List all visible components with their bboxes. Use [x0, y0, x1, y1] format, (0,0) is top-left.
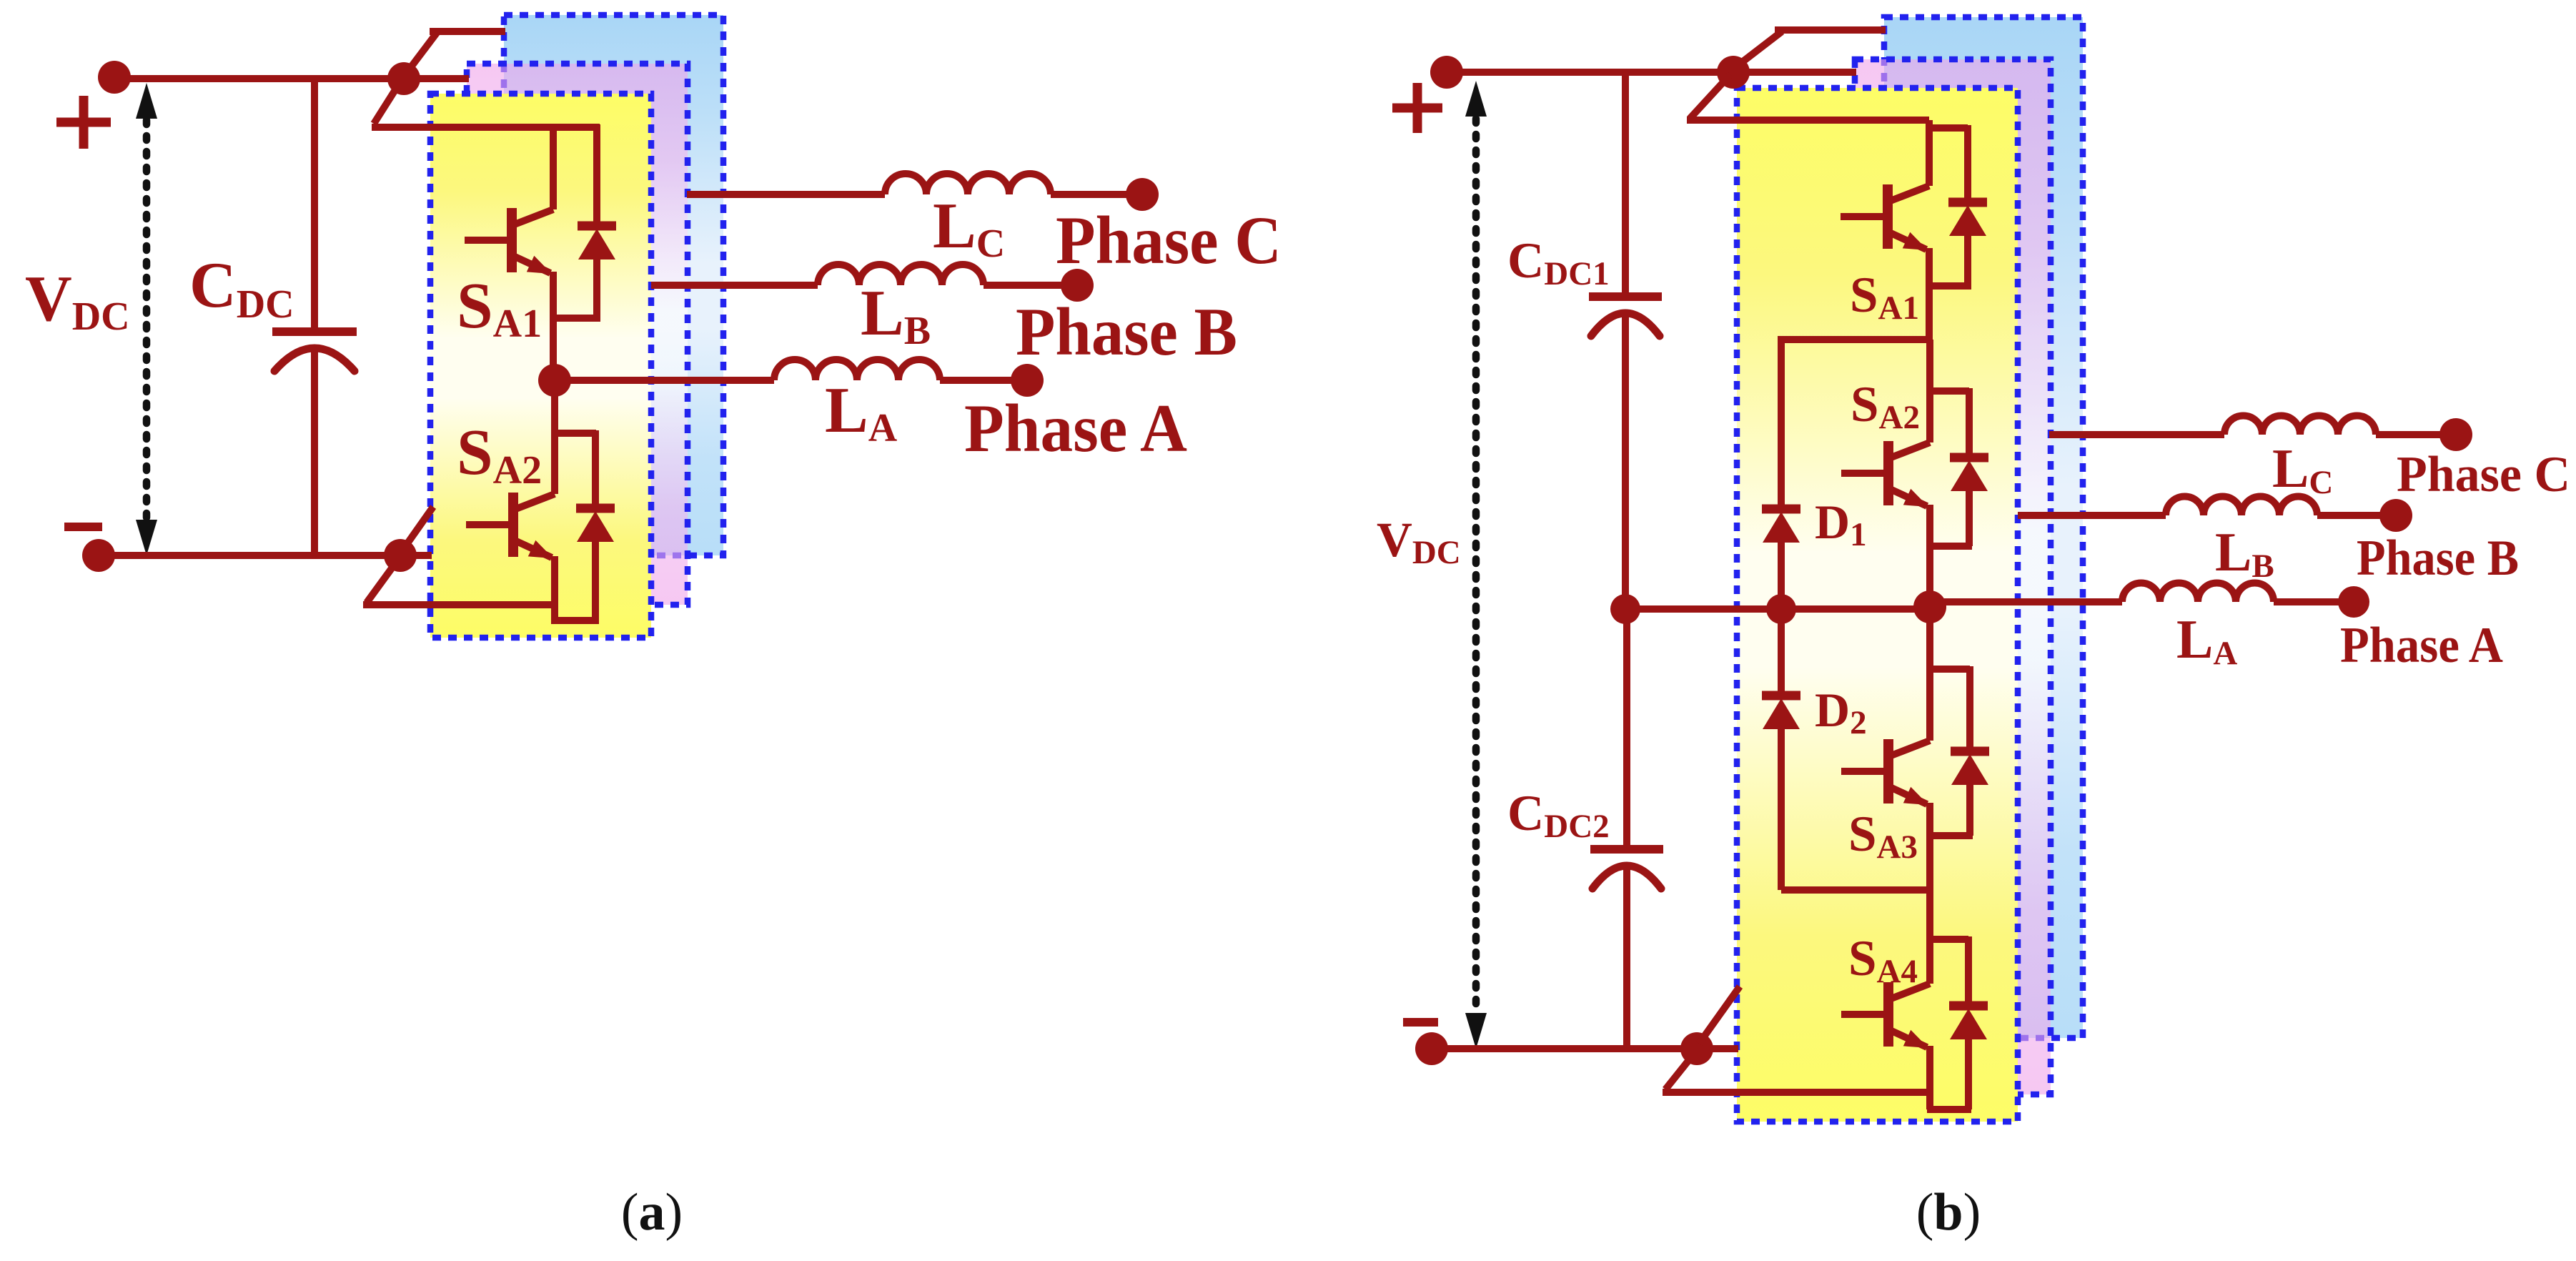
node phase A midpoint (a)	[538, 364, 571, 397]
label Phase B (b)	[2357, 530, 2519, 586]
wire bottom slant to leg C (b)	[1699, 986, 1740, 1044]
wire stub S_A3 collector-diode (b)	[1930, 666, 1970, 673]
wire phase A output (b)	[1930, 598, 2122, 605]
wire top rail leg C (b)	[1775, 26, 1886, 34]
transistor S_A1 (b)	[1841, 184, 1929, 250]
wire mid rail to output node (b)	[1781, 605, 1930, 613]
node capacitor midpoint (b)	[1610, 594, 1640, 624]
wire phase B to terminal (b)	[2317, 512, 2396, 519]
svg-text:(b): (b)	[1916, 1183, 1981, 1242]
wire diode bottom S_A2 (b)	[1966, 490, 1973, 546]
wire phase C output (b)	[2049, 431, 2224, 438]
label Phase B (a)	[1016, 294, 1237, 370]
label Phase A (b)	[2340, 618, 2503, 673]
wire phase A to terminal (a)	[940, 377, 1027, 384]
transistor S_A1 (a)	[465, 208, 553, 274]
node top junction (b)	[1717, 56, 1750, 89]
wire emitter S_A2 (b)	[1926, 505, 1933, 609]
wire top slant to leg C (b)	[1735, 31, 1782, 67]
wire phase C to terminal (b)	[2376, 431, 2456, 438]
capacitor C_DC2 lead top (b)	[1623, 609, 1630, 849]
inductor L_B (a)	[818, 264, 984, 285]
wire stub S_A1 collector-diode (b)	[1929, 124, 1968, 132]
capacitor C_DC (a)	[272, 332, 357, 371]
wire top rail leg C (a)	[430, 28, 505, 35]
wire link D2 to SA3/SA4 node (b)	[1781, 886, 1931, 894]
diode S_A4 antiparallel (b)	[1949, 1006, 1988, 1039]
terminal Phase B (a)	[1061, 269, 1094, 302]
wire bottom DC- rail (b)	[1432, 1045, 1697, 1052]
wire D1 anode lead (b)	[1778, 540, 1785, 609]
terminal DC+ (b)	[1430, 56, 1463, 89]
wire bottom branch to leg B (b)	[1697, 1045, 1738, 1052]
label L_C (a)	[933, 189, 1005, 266]
phase-leg B module box (pink dashed, diagram a)	[467, 64, 688, 605]
wire collector S_A1 (a)	[550, 127, 557, 209]
transistor S_A2 (a)	[466, 493, 555, 558]
V_DC measuring arrow (b)	[1465, 81, 1487, 1049]
diode D2 clamp (b)	[1762, 696, 1800, 729]
terminal DC- (a)	[82, 539, 115, 572]
node phase A midpoint (b)	[1913, 590, 1946, 623]
wire phase B output (b)	[2018, 512, 2166, 519]
wire phase B output (a)	[651, 282, 818, 289]
inductor L_A (b)	[2122, 583, 2274, 602]
wire diode bottom S_A4 (b)	[1965, 1038, 1972, 1109]
wire emitter S_A2 (a)	[551, 556, 558, 620]
wire stub S_A2 collector-diode (a)	[555, 430, 596, 437]
wire top branch to leg B (b)	[1733, 69, 1856, 76]
wire diode top S_A1 (b)	[1964, 125, 1971, 204]
node top junction (a)	[387, 62, 420, 95]
wire phase B to terminal (a)	[984, 282, 1077, 289]
inductor L_C (a)	[885, 174, 1051, 194]
capacitor C_DC1 (b)	[1589, 297, 1662, 336]
label V_DC (a)	[25, 262, 130, 339]
label C_DC2 (b)	[1507, 786, 1610, 845]
wire diode top S_A3 (b)	[1966, 666, 1973, 753]
label S_A1 (b)	[1850, 267, 1919, 327]
label V_DC (b)	[1377, 513, 1461, 571]
transistor S_A4 (b)	[1841, 982, 1930, 1048]
label Phase A (a)	[964, 390, 1187, 466]
svg-text:Phase C: Phase C	[1056, 202, 1282, 278]
label L_A (a)	[825, 374, 898, 450]
diode S_A2 antiparallel (b)	[1950, 458, 1988, 491]
capacitor C_DC1 lead bottom (b)	[1622, 315, 1629, 609]
wire phase C output (a)	[687, 191, 885, 198]
capacitor C_DC2 (b)	[1590, 849, 1663, 889]
plus sign (b)	[1392, 83, 1442, 133]
wire collector S_A4 (b)	[1926, 890, 1933, 984]
svg-text:Phase C: Phase C	[2397, 447, 2570, 503]
wire diode top S_A1 (a)	[593, 124, 600, 227]
caption (b)	[1916, 1183, 1981, 1242]
wire bottom slant to leg C (a)	[402, 507, 433, 550]
wire emitter S_A1 (a)	[550, 272, 557, 380]
label L_B (a)	[861, 277, 931, 353]
wire diode top S_A2 (a)	[592, 430, 599, 510]
diode S_A1 antiparallel (a)	[578, 226, 616, 259]
label L_B (b)	[2215, 521, 2274, 585]
wire emitter S_A1 (b)	[1926, 248, 1933, 340]
transistor S_A3 (b)	[1841, 739, 1930, 805]
wire diode bottom S_A1 (b)	[1964, 234, 1971, 286]
wire stub S_A4 collector-diode (b)	[1930, 936, 1968, 943]
terminal Phase C (a)	[1126, 178, 1159, 211]
terminal Phase A (a)	[1011, 364, 1044, 397]
inductor L_A (a)	[774, 360, 940, 380]
label C_DC (a)	[189, 249, 294, 327]
label L_C (b)	[2272, 437, 2333, 501]
caption (a)	[621, 1183, 683, 1242]
svg-text:Phase A: Phase A	[964, 390, 1187, 466]
inductor L_B (b)	[2166, 497, 2317, 516]
terminal DC- (b)	[1415, 1032, 1448, 1065]
diode D1 clamp (b)	[1762, 509, 1800, 543]
V_DC measuring arrow (a)	[136, 83, 157, 555]
wire phase A output (a)	[555, 377, 774, 384]
inductor L_C (b)	[2224, 416, 2376, 435]
wire top branch to leg B (a)	[404, 75, 469, 82]
wire D1 cathode lead (b)	[1778, 336, 1785, 510]
label S_A3 (b)	[1848, 806, 1918, 866]
terminal DC+ (a)	[98, 61, 131, 94]
wire link to D1 (b)	[1781, 336, 1929, 343]
wire top DC+ rail (b)	[1447, 69, 1733, 76]
capacitor C_DC lead top (a)	[311, 79, 318, 332]
wire diode bottom S_A1 (a)	[593, 258, 600, 318]
capacitor C_DC1 lead top (b)	[1622, 72, 1629, 297]
svg-text:Phase B: Phase B	[1016, 294, 1237, 370]
wire top slant to leg A (a)	[374, 81, 401, 124]
phase-leg C module box (blue dashed, diagram b)	[1884, 17, 2083, 1038]
wire mid rail capacitors (b)	[1625, 605, 1781, 613]
wire top slant to leg A (b)	[1690, 74, 1730, 119]
label Phase C (a)	[1056, 202, 1282, 278]
wire emitter S_A3 (b)	[1926, 803, 1933, 890]
wire top slant to leg C (a)	[406, 33, 437, 74]
label D_1 (b)	[1815, 495, 1867, 553]
wire bottom rail leg A (a)	[363, 601, 555, 608]
capacitor C_DC lead bottom (a)	[311, 350, 318, 555]
diode S_A1 antiparallel (b)	[1948, 202, 1987, 236]
wire top rail leg A (b)	[1687, 117, 1929, 124]
label S_A2 (a)	[457, 416, 542, 493]
wire bottom branch to leg B (a)	[400, 552, 432, 559]
wire top DC+ rail (a)	[114, 75, 404, 82]
wire bottom DC- rail (a)	[99, 552, 400, 559]
wire bottom slant to leg A (a)	[367, 560, 397, 603]
wire collector S_A1 (b)	[1926, 120, 1933, 186]
label L_A (b)	[2176, 608, 2237, 672]
phase-leg B module box (pink dashed, diagram b)	[1855, 59, 2051, 1094]
phase-leg A module box (yellow dashed, diagram a)	[430, 94, 651, 638]
capacitor C_DC2 lead bottom (b)	[1623, 867, 1630, 1049]
minus sign (a)	[64, 523, 102, 531]
label C_DC1 (b)	[1507, 233, 1610, 292]
diode S_A2 antiparallel (a)	[576, 508, 615, 542]
wire diode top S_A2 (b)	[1966, 388, 1973, 459]
wire diode top S_A4 (b)	[1965, 936, 1972, 1007]
terminal Phase C (b)	[2439, 418, 2472, 451]
wire stub S_A3 emitter-diode (b)	[1927, 832, 1973, 839]
node D1-D2 midpoint (b)	[1766, 594, 1796, 624]
wire phase A to terminal (b)	[2274, 598, 2354, 605]
svg-text:(a): (a)	[621, 1183, 683, 1242]
wire stub S_A1 emitter-diode (b)	[1926, 282, 1971, 290]
wire top rail leg A (a)	[372, 124, 600, 131]
phase-leg A module box (yellow dashed, diagram b)	[1737, 88, 2018, 1122]
wire emitter S_A4 (b)	[1926, 1046, 1933, 1109]
wire stub S_A1 emitter-diode (a)	[551, 315, 600, 322]
transistor S_A2 (b)	[1841, 441, 1930, 507]
terminal Phase B (b)	[2379, 499, 2412, 532]
wire stub S_A2 emitter-diode (a)	[551, 617, 599, 624]
wire stub S_A2 collector-diode (b)	[1930, 387, 1969, 395]
wire phase C to terminal (a)	[1051, 191, 1142, 198]
wire stub S_A2 emitter-diode (b)	[1927, 543, 1972, 550]
svg-text:Phase A: Phase A	[2340, 618, 2503, 673]
minus sign (b)	[1403, 1018, 1438, 1027]
label S_A4 (b)	[1848, 931, 1918, 990]
wire collector S_A2 (b)	[1926, 340, 1933, 442]
wire D2 anode lead (b)	[1778, 726, 1785, 890]
svg-text:Phase B: Phase B	[2357, 530, 2519, 586]
wire collector S_A2 (a)	[551, 380, 558, 494]
wire diode bottom S_A3 (b)	[1966, 783, 1973, 836]
phase-leg C module box (blue dashed, diagram a)	[504, 15, 723, 555]
node bottom junction (b)	[1680, 1032, 1713, 1065]
wire collector S_A3 (b)	[1926, 609, 1933, 741]
wire D2 cathode lead (b)	[1778, 609, 1785, 697]
node bottom junction (a)	[384, 539, 417, 572]
wire bottom rail leg A (b)	[1663, 1089, 1930, 1096]
diode S_A3 antiparallel (b)	[1951, 751, 1989, 785]
wire diode bottom S_A2 (a)	[592, 540, 599, 620]
wire bottom slant to leg A (b)	[1665, 1054, 1694, 1089]
label S_A1 (a)	[457, 269, 542, 346]
label Phase C (b)	[2397, 447, 2570, 503]
plus sign (a)	[56, 96, 111, 149]
label D_2 (b)	[1815, 683, 1867, 741]
wire stub S_A4 emitter-diode (b)	[1927, 1106, 1971, 1113]
label S_A2 (b)	[1851, 377, 1920, 436]
terminal Phase A (b)	[2338, 586, 2369, 618]
